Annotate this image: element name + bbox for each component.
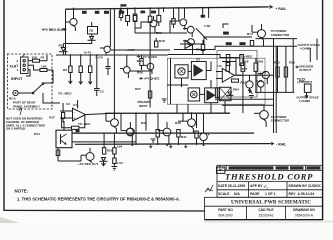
ic U7 xbox bbox=[220, 87, 232, 100]
transistor Q20 bbox=[258, 70, 269, 84]
title block date row bbox=[218, 184, 321, 189]
resistor R24 bbox=[56, 150, 60, 156]
connector J2 RCA bbox=[9, 90, 25, 100]
svg-text:R29: R29 bbox=[107, 148, 113, 152]
resistor R34 bbox=[133, 7, 136, 33]
resistor R42 bbox=[113, 158, 116, 167]
transistor Q8 bbox=[120, 55, 130, 78]
svg-text:DATE 05-11-1995: DATE 05-11-1995 bbox=[218, 184, 245, 188]
driver sub-box bbox=[217, 51, 257, 98]
arrow stub c bbox=[184, 144, 187, 148]
note NOT USED block bbox=[6, 117, 45, 131]
svg-text:1.5V: 1.5V bbox=[117, 161, 124, 165]
wire right drop a bbox=[309, 48, 311, 62]
capacitor C3 bbox=[105, 58, 110, 75]
resistor R30 bbox=[113, 148, 116, 158]
ground gnd6 bbox=[162, 99, 167, 102]
wire drop x110 bbox=[109, 9, 111, 30]
wire cluster h4 bbox=[236, 74, 242, 76]
svg-text:REV: REV bbox=[289, 192, 297, 196]
wire module drop4 bbox=[224, 101, 226, 114]
opto U6 bbox=[188, 88, 200, 101]
wire module h2 bbox=[222, 104, 274, 106]
svg-text:PART NO: PART NO bbox=[218, 208, 233, 212]
wire link d2 d1 bbox=[63, 43, 91, 46]
wire cluster v1 bbox=[235, 58, 237, 75]
resistor R3 bbox=[63, 55, 72, 73]
label blob R16 bbox=[121, 11, 125, 14]
resistor R36 bbox=[304, 84, 311, 92]
resistor R59b bbox=[240, 55, 244, 66]
wire rca riser bbox=[43, 93, 60, 103]
svg-text:DRAWING NO: DRAWING NO bbox=[293, 208, 315, 212]
wire module u3 top bbox=[210, 80, 212, 88]
resistor R35 bbox=[284, 61, 295, 77]
wire xlr pin1 gnd bbox=[26, 70, 30, 76]
arrow stub b bbox=[169, 144, 172, 148]
transistor Q30 bbox=[254, 105, 268, 127]
svg-text:+: + bbox=[74, 117, 76, 121]
wire module h bbox=[215, 98, 274, 100]
wire base q13 bbox=[178, 120, 183, 122]
wire q7 elbow bbox=[58, 155, 81, 161]
wire cluster v2 bbox=[242, 71, 244, 113]
ground arrow gnd3 bbox=[88, 73, 92, 85]
scan edge strip bottom right bbox=[204, 220, 333, 223]
resistor R45 bbox=[172, 8, 175, 28]
wire bias bus bbox=[56, 54, 150, 56]
wire drop p2 bbox=[113, 133, 115, 148]
svg-text:U2: U2 bbox=[196, 58, 200, 62]
net label - RAIL bbox=[270, 142, 287, 146]
wire opamp out bbox=[86, 113, 111, 114]
wire module link u6u3 bbox=[200, 93, 205, 95]
svg-text:PANEL ASSEMBLY: PANEL ASSEMBLY bbox=[13, 104, 40, 108]
resistor R7 bbox=[62, 103, 65, 123]
wire cluster h6 bbox=[222, 61, 236, 63]
svg-text:1 OHMS: 1 OHMS bbox=[299, 99, 310, 103]
svg-text:+PV REG OUT: +PV REG OUT bbox=[78, 162, 98, 166]
svg-text:R59: R59 bbox=[257, 59, 263, 63]
label blob R12 bbox=[104, 11, 109, 14]
wire module v2 bbox=[181, 78, 183, 87]
net label TO POWER CONNECTOR top bbox=[271, 29, 290, 37]
svg-text:CAD FILE: CAD FILE bbox=[258, 208, 274, 212]
svg-text:(-) OUTPUT: (-) OUTPUT bbox=[297, 80, 312, 84]
wire power bus a bbox=[72, 132, 254, 134]
svg-text:- RAIL: - RAIL bbox=[276, 142, 287, 146]
svg-text:152024A2: 152024A2 bbox=[258, 214, 273, 218]
svg-text:R6: R6 bbox=[59, 43, 63, 47]
diode D5 bbox=[248, 90, 253, 94]
border frame right bbox=[322, 0, 324, 223]
svg-text:R35: R35 bbox=[137, 59, 143, 63]
wire q7 top bbox=[63, 121, 65, 130]
wire module drop1 bbox=[176, 104, 178, 113]
transistor Q9 bbox=[81, 148, 94, 163]
resistor R41 bbox=[177, 130, 187, 146]
svg-text:APP BY: APP BY bbox=[250, 184, 263, 188]
svg-text:PAGE: PAGE bbox=[250, 192, 260, 196]
transistor Q4 bbox=[183, 26, 194, 37]
resistor R46 bbox=[195, 131, 198, 145]
svg-text:0+7V: 0+7V bbox=[84, 50, 92, 54]
transistor Q1b bbox=[100, 30, 110, 55]
wire out bus mid bbox=[258, 45, 297, 47]
resistor 10K upper bbox=[32, 55, 48, 62]
wire arrow to box bbox=[19, 108, 22, 115]
label blob R10 bbox=[95, 11, 100, 14]
label OUTPUT STAGE 4 OHMS bbox=[298, 43, 321, 51]
wire module drop2 bbox=[187, 104, 189, 113]
node dots bias bus bbox=[70, 54, 98, 56]
transistor Q6 bbox=[143, 63, 154, 74]
op-amp U1 bbox=[60, 100, 86, 121]
resistor R52 bbox=[201, 40, 204, 55]
net label +PV QUIES upper bbox=[137, 55, 157, 59]
label blob 2W bbox=[201, 15, 206, 18]
label blob R16 bbox=[223, 32, 229, 35]
svg-text:R17: R17 bbox=[49, 115, 55, 119]
diode D7 bbox=[100, 158, 108, 162]
wire q5 col bbox=[192, 49, 194, 55]
svg-text:-: - bbox=[74, 110, 75, 114]
svg-text:R74: R74 bbox=[247, 32, 253, 36]
net label TO -REG bbox=[78, 122, 91, 126]
diode D2 bbox=[88, 34, 96, 44]
wire out bus low bbox=[255, 91, 294, 93]
wire rail left drop bbox=[65, 9, 67, 55]
power device box Q7 bbox=[56, 130, 72, 148]
svg-text:NOTE:: NOTE: bbox=[15, 189, 29, 194]
wire elbow 1 bbox=[180, 37, 252, 44]
svg-text:R3: R3 bbox=[63, 68, 67, 72]
wire diagonal bbox=[196, 28, 207, 39]
transistor Q5 bbox=[156, 31, 194, 49]
resistor R43 body bbox=[148, 16, 152, 22]
transistor Q28 bbox=[252, 24, 266, 46]
capacitor C2 bbox=[94, 55, 104, 96]
svg-text:R58: R58 bbox=[243, 59, 249, 63]
resistor R63 bbox=[232, 79, 239, 82]
border frame bottom bbox=[4, 209, 205, 212]
rear panel dashed box bbox=[8, 54, 53, 109]
wire xlr pin3 bbox=[28, 65, 40, 70]
resistor R5 bbox=[89, 55, 92, 73]
svg-text:R1: R1 bbox=[41, 55, 45, 59]
transistor Q2 bbox=[146, 16, 157, 33]
resistor R64 tall bbox=[215, 88, 239, 98]
wire branch q3 bbox=[170, 21, 176, 33]
label blob R32 bbox=[141, 11, 146, 14]
wire stub y71 bbox=[130, 70, 153, 72]
wire module v1 bbox=[170, 58, 172, 104]
svg-text:OUTPUT: OUTPUT bbox=[299, 68, 311, 72]
wire elbow 3 bbox=[168, 55, 240, 58]
transistor Q11 bbox=[121, 122, 134, 145]
wire vert r2 bbox=[285, 46, 287, 92]
title block outline bbox=[205, 165, 323, 219]
svg-text:TO +REG: TO +REG bbox=[239, 55, 253, 59]
wire module link u5u2 bbox=[188, 70, 191, 72]
opto U5 bbox=[175, 65, 188, 78]
title block part cells bbox=[205, 208, 323, 220]
wire cluster h5 bbox=[258, 73, 262, 75]
svg-text:06542000-A: 06542000-A bbox=[295, 214, 314, 218]
resistor R57 tall bbox=[226, 63, 248, 72]
svg-text:U4: U4 bbox=[218, 64, 222, 68]
svg-text:A 05-11-94: A 05-11-94 bbox=[298, 192, 315, 196]
net label SPEAKER OUTPUT bbox=[295, 64, 314, 72]
svg-text:10K: 10K bbox=[41, 65, 47, 69]
svg-text:TO -REG: TO -REG bbox=[78, 122, 91, 126]
svg-text:C2: C2 bbox=[66, 102, 70, 106]
wire right drop b bbox=[316, 39, 318, 60]
resistor R4 bbox=[79, 55, 82, 73]
wire mid v2 bbox=[135, 113, 137, 145]
svg-text:R18: R18 bbox=[159, 39, 165, 43]
resistor R29 bbox=[102, 148, 112, 154]
arrow down right bbox=[305, 93, 308, 98]
svg-text:R50: R50 bbox=[156, 31, 162, 35]
resistor R31 bbox=[126, 9, 130, 27]
wire mid v1 bbox=[120, 113, 122, 130]
wire upper mid h1 bbox=[135, 32, 187, 34]
resistor R27 body bbox=[148, 91, 151, 98]
wire feedback bbox=[62, 115, 85, 128]
resistor R21 bbox=[140, 55, 143, 70]
wire vert r3 bbox=[292, 39, 294, 93]
transistor Q15 bbox=[126, 128, 133, 135]
node dots on rail bbox=[114, 7, 210, 10]
svg-text:3: 3 bbox=[17, 63, 19, 67]
svg-text:ON 2 AMPS(2): ON 2 AMPS(2) bbox=[6, 127, 25, 131]
resistor R33b bbox=[119, 7, 122, 21]
ground arrow gnd8 bbox=[102, 161, 106, 166]
approval signature scribble bbox=[205, 185, 213, 192]
net label +PV REG OUT bbox=[42, 28, 67, 32]
svg-text:R35: R35 bbox=[289, 61, 295, 65]
svg-text:+PV REG OUT: +PV REG OUT bbox=[42, 28, 64, 32]
wire top link bbox=[223, 24, 229, 28]
svg-text:SCALE: SCALE bbox=[218, 192, 230, 196]
wire branch q2 bbox=[135, 22, 146, 28]
arrow stub a bbox=[149, 144, 152, 148]
net label +PV QUIES lower bbox=[139, 77, 159, 81]
label blob R59a bbox=[240, 42, 246, 45]
node rail arrowhead bbox=[269, 5, 273, 8]
wire q1 drop bbox=[73, 9, 75, 18]
wire drop p1 bbox=[103, 133, 105, 148]
label blob C1 above rail bbox=[120, 4, 126, 6]
transistor Q1 bbox=[66, 8, 77, 31]
resistor R40 bbox=[156, 130, 159, 146]
label blob R58a bbox=[226, 42, 232, 45]
wire module h3 bbox=[167, 84, 188, 86]
capacitor C12 electrolytic bbox=[246, 75, 253, 93]
net label TO POWER CONNECTOR bottom bbox=[271, 115, 290, 123]
wire mid v4 bbox=[157, 113, 159, 129]
label blob q7 bbox=[76, 130, 80, 133]
svg-text:2: 2 bbox=[17, 59, 19, 63]
svg-text:194: 194 bbox=[117, 145, 122, 149]
svg-text:R24: R24 bbox=[34, 132, 40, 136]
wire cluster v3 bbox=[255, 71, 257, 92]
resistor R34 bbox=[133, 8, 137, 33]
resistor R59 bbox=[254, 58, 263, 71]
net label TO PV OUTPUT bbox=[297, 77, 312, 84]
svg-text:DRAWN BY CUSICK: DRAWN BY CUSICK bbox=[289, 184, 322, 188]
resistor R33 bbox=[274, 61, 280, 77]
wire drop C bbox=[184, 8, 186, 18]
resistor R9 feedback bbox=[72, 126, 79, 129]
wire bus join bbox=[150, 54, 168, 56]
transistor Q12 bbox=[158, 122, 171, 145]
junction dots mid bbox=[114, 112, 205, 146]
svg-text:✓,: ✓, bbox=[263, 184, 268, 189]
test point box TP1 bbox=[217, 167, 225, 173]
svg-text:1 OF 1: 1 OF 1 bbox=[265, 192, 275, 196]
resistor 10K lower bbox=[40, 65, 53, 72]
wire xlr pin2 bbox=[28, 60, 33, 62]
svg-text:10K: 10K bbox=[32, 55, 38, 59]
driver module box bbox=[167, 58, 265, 104]
wire drop g bbox=[178, 7, 180, 21]
title block revision row bbox=[222, 166, 321, 170]
zener box 7V bbox=[88, 22, 98, 34]
ground arrow gnd1 bbox=[69, 73, 73, 84]
svg-text:R33: R33 bbox=[274, 61, 280, 65]
wire mid v3 bbox=[145, 113, 147, 130]
diode D1 bbox=[59, 43, 68, 51]
ic U3 bbox=[205, 88, 218, 103]
svg-text:R27: R27 bbox=[135, 87, 141, 91]
svg-text:UNIVERSAL PWB SCHEMATIC: UNIVERSAL PWB SCHEMATIC bbox=[231, 200, 311, 206]
switch S1 bbox=[25, 83, 44, 94]
title block scale row bbox=[218, 192, 314, 196]
wire mid v6 bbox=[196, 113, 198, 128]
wire mid v5 bbox=[182, 113, 184, 121]
wire mid bus bbox=[105, 112, 230, 114]
svg-text:+PV QUIES: +PV QUIES bbox=[144, 77, 160, 81]
svg-text:R57: R57 bbox=[242, 67, 248, 71]
svg-text:+ RAIL: + RAIL bbox=[276, 7, 287, 11]
border frame left bbox=[3, 0, 5, 211]
label PART OF REAR PANEL ASSEMBLY bbox=[13, 101, 40, 109]
connector J1 XLR bbox=[17, 54, 29, 74]
diode D6 bbox=[226, 92, 233, 95]
label blob R43 bbox=[151, 11, 156, 14]
svg-text:XLR: XLR bbox=[10, 65, 17, 69]
wire into bus bbox=[62, 52, 64, 55]
wire module drop3 bbox=[210, 103, 212, 114]
svg-text:60A-2000: 60A-2000 bbox=[218, 214, 232, 218]
svg-text:+0.7V: +0.7V bbox=[127, 48, 136, 52]
transistor Q3 bbox=[176, 19, 211, 30]
svg-text:1: 1 bbox=[17, 68, 19, 72]
svg-text:1.5K: 1.5K bbox=[204, 24, 211, 28]
ground gnd7 bbox=[112, 167, 118, 171]
svg-text:R41: R41 bbox=[181, 135, 187, 139]
svg-text:INPUT: INPUT bbox=[139, 104, 148, 108]
wire drop E bbox=[208, 8, 210, 18]
wire vert r1 bbox=[277, 46, 279, 92]
wire mid v7 bbox=[203, 113, 205, 128]
transistor Q13 bbox=[183, 113, 195, 133]
wire out bus top bbox=[256, 38, 298, 40]
svg-text:THRESHOLD CORP: THRESHOLD CORP bbox=[225, 172, 313, 182]
wire drop f bbox=[163, 7, 165, 12]
ground gnd4 bbox=[151, 139, 156, 142]
capacitor C9 electrolytic bbox=[200, 128, 210, 145]
svg-text:INPUT: INPUT bbox=[11, 77, 23, 81]
wire lower bus bbox=[75, 143, 270, 146]
op-amp U8 small bbox=[185, 41, 202, 52]
ground arrow gnd2 bbox=[79, 73, 83, 85]
wire q7 lower drop bbox=[57, 148, 59, 161]
wire power bus b bbox=[72, 141, 136, 143]
svg-text:4 OHMS: 4 OHMS bbox=[300, 47, 311, 51]
wire input node bbox=[46, 55, 48, 61]
capacitor C14 bbox=[258, 81, 264, 92]
wire long drop A bbox=[113, 9, 115, 117]
op-amp U4 bbox=[216, 64, 274, 82]
svg-text:C2: C2 bbox=[100, 90, 104, 94]
ic U2 bbox=[191, 58, 206, 80]
wire long vert pair b bbox=[275, 46, 277, 133]
svg-text:7V: 7V bbox=[89, 29, 94, 33]
wire to switch bbox=[43, 70, 53, 83]
svg-text:TO +REG: TO +REG bbox=[58, 92, 72, 96]
transistor Q10 bbox=[106, 113, 118, 133]
resistor R58 bbox=[241, 58, 249, 71]
resistor R44 bbox=[157, 8, 161, 26]
wire drop D bbox=[202, 8, 204, 18]
svg-text:N/A: N/A bbox=[234, 192, 240, 196]
wire base q10 bbox=[105, 113, 107, 121]
wire upper mid h2 bbox=[111, 49, 170, 51]
svg-text:R64: R64 bbox=[233, 88, 239, 92]
ground gnd5 bbox=[249, 96, 254, 99]
label PREAMP INPUT bbox=[138, 100, 150, 108]
resistor R18 bbox=[155, 38, 165, 47]
label OUTPUT STAGE 1 OHMS bbox=[296, 95, 319, 103]
wire +rail top bbox=[66, 7, 269, 9]
label blob R8 bbox=[82, 11, 87, 14]
wire drop x120 bbox=[119, 9, 121, 16]
svg-text:U1: U1 bbox=[73, 103, 77, 107]
wire long vert pair a bbox=[273, 39, 275, 133]
wire module u2 out bbox=[206, 62, 211, 71]
resistor R75 bbox=[250, 41, 253, 46]
wire elbow 2 bbox=[174, 46, 258, 49]
bottom-left page corner smudge bbox=[0, 217, 20, 223]
svg-text:1. THIS SCHEMATIC REPRESENTS T: 1. THIS SCHEMATIC REPRESENTS THE CIRCUIT… bbox=[17, 197, 180, 202]
wire long drop B bbox=[149, 8, 151, 107]
resistor R57a bbox=[226, 55, 230, 66]
svg-text:CONNECTOR: CONNECTOR bbox=[271, 33, 290, 37]
